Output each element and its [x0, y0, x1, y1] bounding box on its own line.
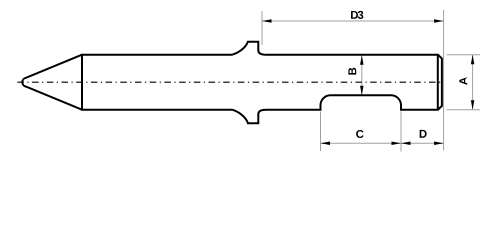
arrowhead B top	[360, 55, 364, 64]
dimension line A	[472, 55, 474, 110]
arrowhead D3 left	[262, 19, 272, 23]
arrowhead A bottom	[471, 100, 475, 110]
dimension line C and D	[321, 142, 444, 144]
centerline (dash-dot axis)	[17, 81, 442, 83]
arrowhead C left	[321, 141, 331, 145]
label D	[420, 130, 427, 138]
extension line A bottom	[447, 109, 481, 111]
label C	[356, 130, 363, 138]
dimension line D3	[262, 20, 444, 22]
arrowhead A top	[471, 55, 475, 64]
extension line left of D3	[261, 11, 263, 45]
dimension line B	[361, 55, 363, 95]
extension line A top	[447, 54, 481, 56]
label B	[348, 68, 356, 75]
arrowhead D3 right	[434, 19, 444, 23]
extension line C/D middle	[400, 112, 402, 152]
arrowhead B bottom	[360, 86, 364, 96]
extension line C left	[320, 112, 322, 152]
chamfer edge line at right end	[437, 55, 439, 110]
arrowhead D right	[434, 141, 444, 145]
conical tip	[22, 55, 82, 110]
label A	[459, 77, 467, 85]
extension line right of D3 / D	[443, 10, 445, 151]
arrowhead D left	[401, 141, 411, 145]
arrowhead C right	[392, 141, 402, 145]
body outline (shank, collar, groove, chamfered end)	[82, 42, 442, 124]
label D3	[351, 11, 363, 19]
